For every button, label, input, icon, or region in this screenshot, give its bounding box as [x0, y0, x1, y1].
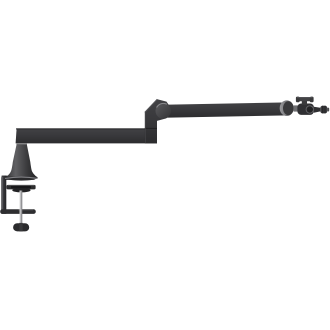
clamp C-frame top jaw [2, 176, 36, 180]
clamp knob [13, 223, 29, 231]
knurled nut [320, 106, 327, 114]
end cap disc [283, 101, 294, 115]
base disc top rim highlight [5, 177, 38, 178]
clamp C-frame bottom jaw [0, 209, 36, 214]
base disc under cone [5, 175, 38, 181]
T-knob left end [296, 97, 300, 103]
ball head right boss [306, 106, 313, 113]
clamp pad bar [7, 185, 36, 190]
elbow riser link [145, 99, 171, 143]
ball head body [297, 104, 314, 115]
thread stub cone [314, 107, 321, 113]
clamp pad disc [12, 188, 30, 192]
T-knob stem [302, 100, 307, 105]
lower arm [16, 128, 157, 143]
neck between cap and ball head [294, 105, 299, 111]
upper arm [163, 102, 288, 117]
joint circle [156, 103, 171, 118]
cone riser [7, 144, 37, 176]
nut tip [327, 108, 329, 112]
T-knob bar [296, 97, 313, 101]
clamp screw shaft [20, 191, 23, 224]
end cap ring [280, 100, 294, 116]
T-knob right end [310, 97, 314, 103]
clamp C-frame left vertical [1, 176, 6, 214]
